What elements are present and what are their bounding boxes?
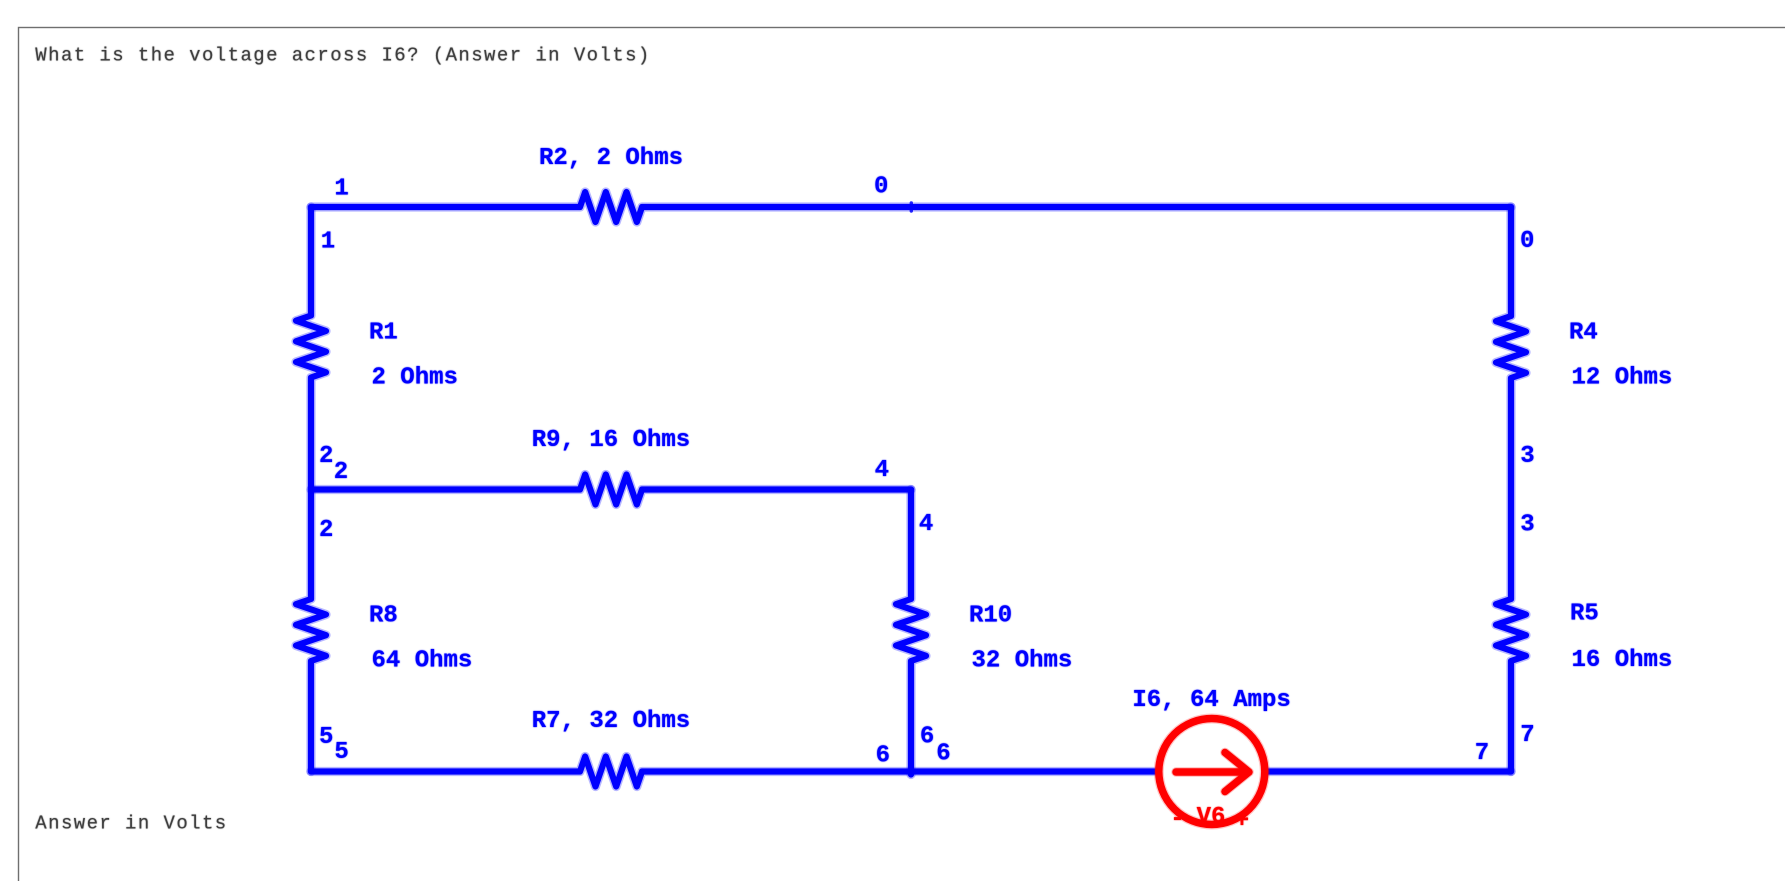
svg-text:12 Ohms: 12 Ohms	[1572, 365, 1673, 392]
svg-text:R8: R8	[369, 603, 398, 630]
svg-text:R4: R4	[1569, 320, 1598, 347]
current source I6 arrow	[1176, 753, 1249, 792]
svg-text:7: 7	[1475, 740, 1489, 767]
svg-text:2: 2	[334, 459, 348, 486]
wire bottom right	[1269, 767, 1512, 776]
current source I6	[1159, 719, 1265, 825]
svg-text:I6, 64 Amps: I6, 64 Amps	[1132, 687, 1290, 714]
svg-text:0: 0	[874, 174, 888, 201]
svg-text:R2, 2 Ohms: R2, 2 Ohms	[539, 145, 683, 172]
svg-text:R10: R10	[969, 603, 1012, 630]
svg-text:64 Ohms: 64 Ohms	[372, 648, 473, 675]
svg-text:1: 1	[321, 229, 335, 256]
svg-text:7: 7	[1520, 722, 1534, 749]
svg-text:Answer in Volts: Answer in Volts	[35, 812, 227, 834]
svg-text:4: 4	[875, 457, 889, 484]
svg-text:6: 6	[936, 740, 950, 767]
svg-text:2 Ohms: 2 Ohms	[372, 365, 458, 392]
svg-text:32 Ohms: 32 Ohms	[972, 648, 1073, 675]
wire bottom left with resistor R7	[311, 757, 1155, 787]
svg-text:R9, 16 Ohms: R9, 16 Ohms	[532, 427, 690, 454]
svg-text:2: 2	[319, 517, 333, 544]
svg-text:1: 1	[334, 176, 348, 203]
svg-text:R7, 32 Ohms: R7, 32 Ohms	[532, 708, 690, 735]
svg-text:2: 2	[319, 443, 333, 470]
svg-text:What is the voltage across I6?: What is the voltage across I6? (Answer i…	[35, 45, 650, 67]
svg-text:3: 3	[1520, 512, 1534, 539]
svg-text:3: 3	[1520, 443, 1534, 470]
svg-text:5: 5	[319, 724, 333, 751]
svg-text:6: 6	[920, 724, 934, 751]
svg-text:-: -	[1170, 806, 1184, 833]
wire right with resistor R4 and resistor R5	[1496, 207, 1526, 772]
node 0 junction tick	[910, 203, 913, 211]
svg-text:4: 4	[919, 511, 933, 538]
svg-text:16 Ohms: 16 Ohms	[1572, 647, 1673, 674]
svg-text:6: 6	[876, 742, 890, 769]
svg-text:R1: R1	[369, 320, 398, 347]
svg-text:5: 5	[334, 739, 348, 766]
svg-text:R5: R5	[1570, 601, 1599, 628]
wire left with resistor R1 and resistor R8	[296, 207, 326, 772]
wire top with resistor R2	[311, 192, 1511, 222]
svg-text:+: +	[1235, 808, 1249, 835]
svg-text:V6: V6	[1197, 804, 1226, 831]
svg-text:0: 0	[1520, 228, 1534, 255]
wire middle horizontal with resistor R9	[311, 475, 911, 505]
wire middle vertical with resistor R10	[896, 490, 926, 775]
